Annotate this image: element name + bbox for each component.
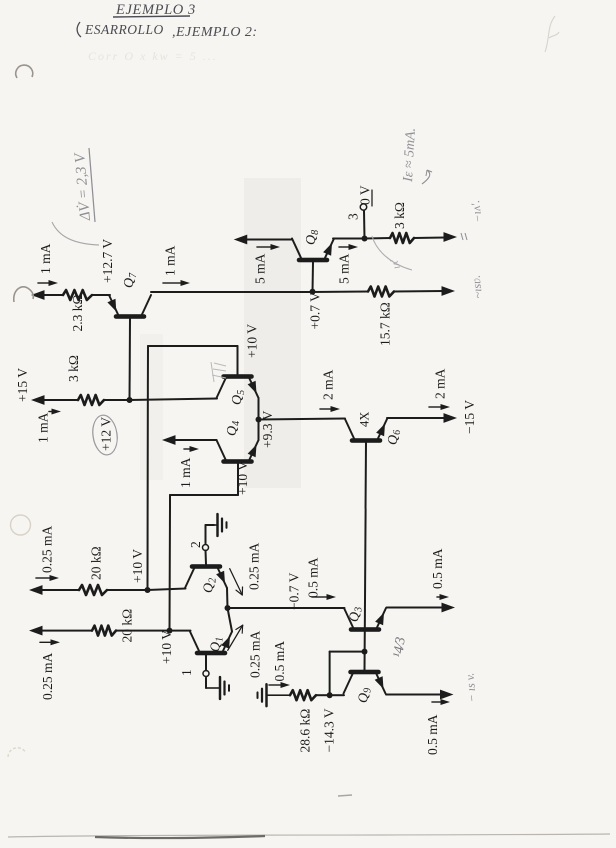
punch hole 3 bbox=[11, 515, 31, 535]
label Q5 bbox=[230, 390, 247, 405]
wire pin1 to ground bbox=[205, 678, 207, 689]
node label 0 V bbox=[358, 185, 373, 206]
bottom scan line bbox=[8, 834, 610, 838]
wire tail line bbox=[228, 607, 345, 609]
label Q2 bbox=[202, 578, 219, 593]
transistor Q8 bbox=[292, 239, 334, 261]
label -15 V bbox=[462, 400, 477, 434]
wire 28.6k chain bbox=[316, 694, 344, 696]
wire Q8 base bbox=[312, 262, 315, 292]
stray pencil dash bbox=[338, 795, 352, 796]
wire pin2 to ground bbox=[206, 525, 215, 544]
node +9.3V junction bbox=[256, 417, 262, 423]
supply arrow -15V (3k output) bbox=[444, 232, 458, 242]
pin label 3 bbox=[346, 213, 361, 220]
current label 0.25 mA (Q1 emitter) bbox=[228, 625, 263, 678]
faint pencil note line bbox=[88, 49, 218, 63]
handwritten title EJEMPLO 3 bbox=[113, 2, 196, 18]
node Q8 base junction bbox=[310, 289, 316, 295]
wire Q2 base stub bbox=[205, 551, 208, 565]
punch hole 2 bbox=[14, 287, 34, 302]
ground (pin 1) bbox=[206, 677, 229, 699]
node label +12 V bbox=[90, 414, 119, 457]
label Q1 bbox=[209, 637, 226, 652]
current label 0.5 mA (Q3) bbox=[430, 548, 449, 600]
pin label 2 bbox=[188, 541, 203, 548]
handwritten dV=2,3V bbox=[72, 148, 95, 222]
handwritten -15v (below 3k) bbox=[461, 199, 485, 240]
node Q2 collector junction bbox=[145, 587, 151, 593]
handwritten arc (top) bbox=[52, 222, 99, 245]
scan shading band 2 bbox=[140, 334, 163, 480]
supply arrow -15V (Q6) bbox=[441, 413, 457, 423]
stray pencil squiggle top right bbox=[545, 16, 559, 52]
label +15 V bbox=[15, 368, 30, 402]
node -14.3V junction bbox=[327, 692, 333, 698]
punch hole 4 bbox=[8, 748, 26, 757]
handwritten IE=5mA bbox=[401, 127, 432, 184]
node label +9.3 V bbox=[260, 410, 275, 448]
handwritten -15V (below Q9) bbox=[462, 672, 479, 703]
current label 1 mA (2.3k) bbox=[38, 243, 58, 286]
wire 20k branch 2 bbox=[38, 630, 191, 632]
punch hole top bbox=[16, 65, 33, 78]
wire Q5 base path bbox=[148, 346, 238, 590]
resistor R 3k (bias) bbox=[78, 395, 104, 405]
current label 1 mA (Q4) bbox=[178, 446, 199, 488]
supply arrow +15V (20k-2) bbox=[29, 626, 43, 636]
node label +10 V (Q1 collector) bbox=[159, 630, 174, 664]
transistor Q6 bbox=[345, 419, 387, 441]
supply arrow -15V (Q9) bbox=[440, 690, 454, 700]
label Q9 bbox=[357, 688, 374, 703]
current label 0.25 mA (Q2 emitter) bbox=[230, 542, 262, 595]
supply arrow -15V (15.7k) bbox=[442, 286, 456, 296]
current label 0.25 mA (Q2) bbox=[36, 525, 59, 581]
transistor Q3 bbox=[344, 608, 386, 630]
wire Q7 collector line bbox=[151, 291, 443, 292]
current label 1 mA (Q7 collector) bbox=[163, 245, 191, 286]
handwritten 14,3 bbox=[391, 636, 409, 658]
resistor R 28.6k bbox=[290, 690, 316, 700]
supply arrow +15V (20k-1) bbox=[29, 585, 43, 595]
label 3 kohm (output) bbox=[392, 202, 407, 229]
label 15.7 kohm bbox=[378, 302, 393, 346]
transistor Q9 bbox=[344, 672, 386, 694]
node +12V junction bbox=[127, 397, 133, 403]
transistor Q2 bbox=[185, 567, 227, 589]
transistor Q5 bbox=[217, 377, 259, 399]
resistor R 3k (output) bbox=[390, 233, 414, 243]
node label -0.7 V bbox=[287, 572, 302, 610]
ground (pin 2) bbox=[214, 514, 227, 536]
wire Q3 emitter line bbox=[387, 607, 444, 609]
pin 1 terminal bbox=[203, 671, 209, 677]
current label 2 mA (Q6 emitter) bbox=[429, 368, 450, 410]
node label -14.3 V bbox=[322, 708, 337, 752]
node output junction bbox=[362, 236, 368, 242]
label 4X bbox=[358, 412, 372, 427]
resistor R 20k (Q2) bbox=[79, 585, 107, 595]
handwritten squiggle near 3k bbox=[372, 236, 412, 271]
wire Q4 emitter to node bbox=[258, 420, 260, 441]
label 2.3 kohm bbox=[70, 294, 85, 331]
wire Q7 base bbox=[129, 319, 132, 401]
current label 0.5 mA (tail) bbox=[306, 557, 337, 600]
label Q6 bbox=[386, 430, 403, 445]
handwritten subtitle DESARROLLO EJEMPLO 2 bbox=[77, 22, 257, 40]
resistor R 2.3k bbox=[63, 290, 92, 300]
transistor Q4 bbox=[217, 440, 259, 462]
label Q4 bbox=[225, 421, 242, 436]
resistor R 20k (Q1) bbox=[92, 626, 116, 636]
current label 2 mA (Q6 collector) bbox=[320, 369, 340, 412]
label Q8 bbox=[304, 230, 321, 245]
pin 3 output terminal bbox=[360, 204, 366, 210]
wire Q4 base path bbox=[170, 464, 239, 631]
svg-text:,EJEMPLO 2:: ,EJEMPLO 2: bbox=[172, 25, 258, 40]
wire 2.3k branch to +15V bbox=[40, 294, 110, 296]
supply arrow +15V (3k branch) bbox=[31, 395, 45, 405]
label 3 kohm (bias) bbox=[66, 355, 81, 382]
svg-text:Corr O x kw = 5 ...: Corr O x kw = 5 ... bbox=[88, 49, 218, 63]
node label +12.7 V bbox=[100, 239, 115, 283]
node bases junction bbox=[362, 649, 368, 655]
transistor Q1 bbox=[190, 632, 232, 654]
label Q7 bbox=[122, 272, 139, 288]
label Q3 bbox=[348, 607, 365, 622]
label 28.6 kohm bbox=[298, 709, 313, 753]
node Q1 collector junction bbox=[167, 628, 173, 634]
resistor R 15.7k bbox=[368, 287, 394, 297]
supply arrow +15V (Q8) bbox=[234, 235, 248, 245]
supply arrow +15V (Q4) bbox=[162, 435, 176, 445]
ground (28.6k chain) bbox=[258, 684, 291, 706]
current label 0.5 mA (28.6k) bbox=[269, 641, 290, 688]
wire bias tap bbox=[330, 652, 365, 696]
node emitter tail junction bbox=[225, 605, 231, 611]
label 20 kohm (Q2) bbox=[89, 546, 104, 580]
scan shading band bbox=[244, 178, 301, 488]
wire bases rail bbox=[365, 442, 367, 671]
node label +10 V (Q2 collector) bbox=[130, 549, 145, 583]
wire Q1 emitter to tail bbox=[228, 608, 233, 632]
current label 0.25 mA (Q1) bbox=[40, 639, 60, 700]
wire output stub bbox=[363, 211, 366, 239]
node label +10 V (Q4 base) bbox=[235, 461, 250, 495]
wire Q2 emitter to tail bbox=[226, 588, 229, 608]
svg-text:ESARROLLO: ESARROLLO bbox=[84, 22, 164, 37]
wire Q1 base stub bbox=[205, 655, 207, 671]
supply arrow -15V (Q3) bbox=[442, 603, 456, 613]
node label +10 V (Q5 base) bbox=[245, 324, 260, 358]
wire Q9 emitter line bbox=[386, 694, 440, 696]
wire Q6 emitter line bbox=[387, 417, 444, 419]
current label 5 mA (Q8 emitter) bbox=[337, 244, 359, 284]
handwritten -15v (below 15.7k) bbox=[469, 274, 485, 299]
wire 20k branch 1 bbox=[38, 589, 186, 591]
wire Q8 emitter/output bbox=[333, 238, 445, 239]
pin 2 terminal bbox=[203, 545, 209, 551]
current label 1 mA (3k) bbox=[36, 409, 62, 444]
wire Q5 collector up bbox=[0, 847, 1, 848]
wire Q5 emitter to node bbox=[258, 398, 260, 420]
transistor Q7 bbox=[107, 295, 151, 317]
pin label 1 bbox=[179, 669, 194, 676]
current label 5 mA (Q8 collector) bbox=[253, 244, 281, 284]
wire 3k branch bbox=[40, 399, 217, 401]
current label 0.5 mA (Q9) bbox=[425, 699, 450, 755]
supply arrow +15V (2.3k branch) bbox=[31, 290, 45, 300]
handwritten scribble over Q5 bbox=[211, 362, 226, 382]
wire +9.3V node to Q6 bbox=[259, 419, 346, 420]
wire Q8 collector to +15V bbox=[246, 239, 292, 241]
wire Q4 collector to +15V bbox=[172, 439, 217, 441]
node label +0.7 V bbox=[308, 292, 323, 330]
label 20 kohm (Q1) bbox=[120, 609, 135, 643]
